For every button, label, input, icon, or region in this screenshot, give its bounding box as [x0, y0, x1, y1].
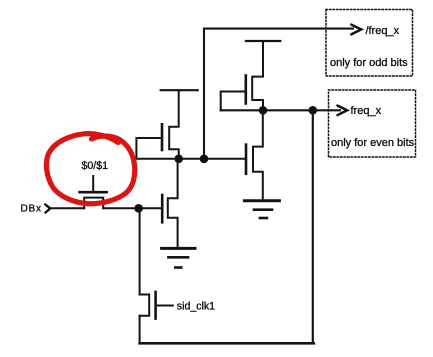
- pass transistor Q1 gate stem: [92, 176, 94, 192]
- svg-text:only for even bits: only for even bits: [331, 137, 415, 149]
- label only for even bits: [331, 137, 415, 149]
- dashed box: only for even bits: [329, 90, 416, 157]
- input port chevron DBx: [45, 204, 50, 212]
- junction dot freq_x at Q3 source: [259, 106, 268, 115]
- pass transistor Q6 gate lead: [157, 305, 173, 307]
- pass transistor Q1 gate plate: [80, 191, 107, 194]
- transistor Q2 load, drain-channel-source path: [169, 90, 179, 159]
- wire node A horizontal (/freq_x net): [136, 158, 245, 160]
- wire Q2 gate loop to node A: [136, 138, 161, 159]
- svg-text:sid_clk1: sid_clk1: [177, 301, 215, 313]
- wire Q6 source down to bottom rail: [139, 316, 141, 344]
- transistor Q5 gate plate: [161, 195, 164, 222]
- junction dot DBx node: [134, 204, 143, 213]
- transistor Q3 load, drain-channel-source path: [252, 41, 263, 110]
- ground symbol right column: [244, 201, 279, 218]
- dashed box: only for odd bits: [326, 10, 413, 77]
- wire bottom rail: [140, 342, 314, 345]
- svg-text:DBx: DBx: [21, 204, 42, 215]
- transistor Q4 driver, drain-channel-source path: [253, 110, 263, 200]
- wire pass transistor to Q5 gate: [103, 207, 161, 209]
- label $0/$1: [82, 160, 109, 172]
- wire vertical from /freq_x line down to node A: [203, 29, 205, 159]
- wire right feedback vertical: [312, 110, 314, 343]
- pass transistor Q6 gate plate: [154, 292, 157, 319]
- svg-text:$0/$1: $0/$1: [82, 160, 109, 172]
- transistor Q2 gate plate: [161, 124, 164, 150]
- pass transistor Q6 sid_clk1 channel bump: [140, 295, 150, 316]
- svg-text:/freq_x: /freq_x: [366, 25, 400, 37]
- ground symbol middle column: [162, 248, 195, 267]
- junction dot node A at /freq_x tap: [200, 155, 209, 164]
- supply bar (right column): [246, 40, 280, 42]
- wire freq_x horizontal (node B): [221, 109, 340, 111]
- wire top /freq_x horizontal: [204, 28, 353, 30]
- red annotation ellipse around $0/$1 pass transistor: [46, 134, 134, 204]
- wire DBx to pass transistor: [50, 207, 84, 209]
- label freq_x: [351, 105, 382, 117]
- supply bar (middle column): [161, 89, 198, 91]
- arrow head /freq_x: [351, 25, 361, 35]
- pass transistor Q1 channel bump: [84, 198, 103, 209]
- junction dot node A at Q2 source: [174, 155, 183, 164]
- svg-text:freq_x: freq_x: [351, 105, 382, 117]
- svg-text:only for odd bits: only for odd bits: [330, 57, 408, 69]
- label DBx: [21, 204, 42, 215]
- junction dot freq_x at feedback tap: [309, 106, 318, 115]
- label only for odd bits: [330, 57, 408, 69]
- transistor Q3 gate plate: [245, 76, 248, 104]
- label sid_clk1: [177, 301, 215, 313]
- wire Q3 gate loop to freq_x node: [221, 92, 245, 111]
- transistor Q5 driver, drain-channel-source path: [168, 159, 178, 249]
- transistor Q4 gate plate: [245, 145, 248, 174]
- arrow head freq_x: [338, 106, 348, 116]
- label /freq_x: [366, 25, 400, 37]
- wire DBx node down to sid_clk1 transistor: [139, 208, 141, 294]
